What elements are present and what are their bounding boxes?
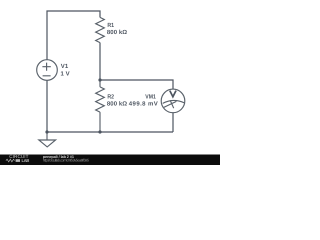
node junction bottom	[98, 130, 101, 133]
svg-text:1 V: 1 V	[61, 71, 70, 78]
voltmeter V glyph	[170, 91, 176, 97]
footer bar	[0, 155, 220, 166]
svg-text:800 kΩ: 800 kΩ	[107, 100, 127, 107]
logo zigzag	[6, 159, 15, 162]
node junction middle	[98, 78, 101, 81]
voltmeter VM1	[161, 89, 185, 113]
voltage source V1	[37, 60, 58, 81]
svg-text:R2: R2	[107, 93, 114, 100]
wire left lower	[46, 80, 48, 132]
wire middle	[100, 80, 173, 89]
svg-text:http://circuitlab.com/c/nf53v5: http://circuitlab.com/c/nf53v5ea6f/595	[43, 158, 89, 162]
resistor R1	[96, 17, 105, 42]
wire bottom	[47, 131, 173, 133]
logo chip	[16, 159, 20, 162]
wire R1 bottom	[99, 43, 101, 80]
svg-text:LAB: LAB	[22, 158, 30, 163]
svg-text:VM1: VM1	[145, 93, 156, 100]
svg-text:V1: V1	[61, 63, 69, 70]
svg-text:499.8 mV: 499.8 mV	[129, 100, 158, 107]
ground	[46, 132, 48, 140]
wire voltmeter bottom	[172, 113, 174, 132]
resistor R2	[99, 80, 101, 87]
svg-text:R1: R1	[107, 22, 114, 29]
svg-text:800 kΩ: 800 kΩ	[107, 29, 127, 36]
wire top	[47, 11, 100, 60]
node junction left	[45, 130, 48, 133]
